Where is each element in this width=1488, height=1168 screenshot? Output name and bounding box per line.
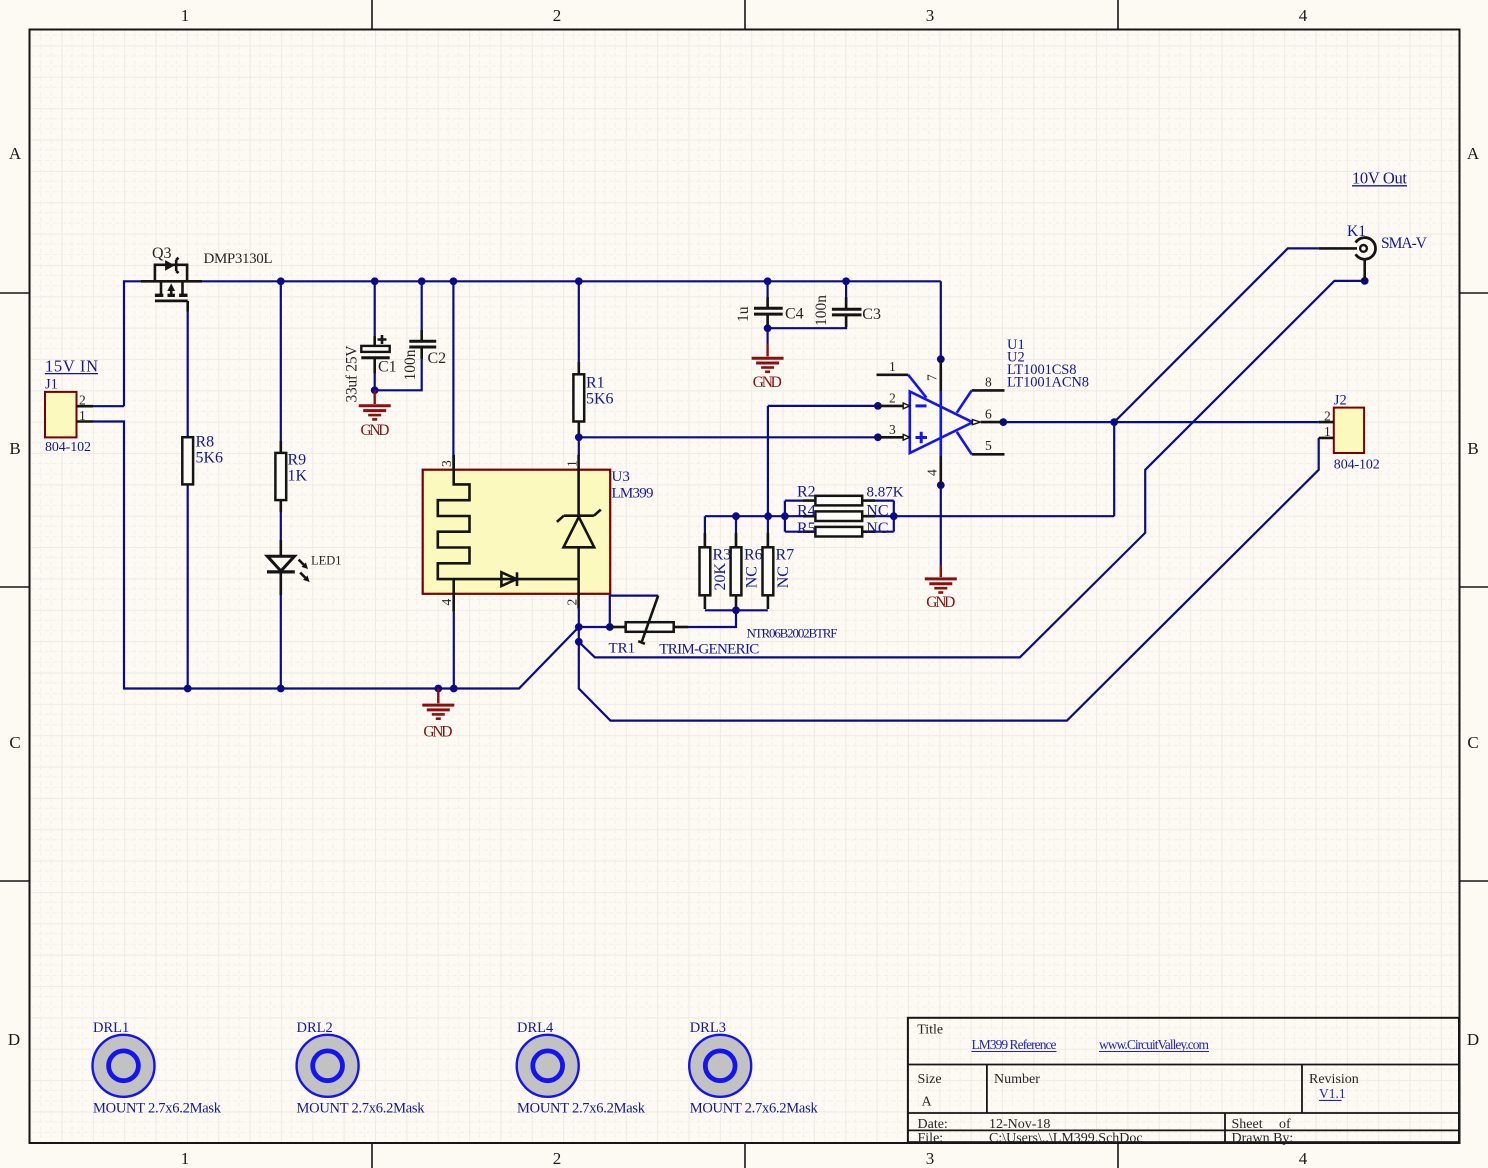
wire output to K1 center diagonal xyxy=(1114,248,1319,422)
svg-text:NTR06B2002BTRF: NTR06B2002BTRF xyxy=(747,626,838,641)
ground GND at C4 xyxy=(752,344,784,372)
capacitor C1 xyxy=(361,335,389,373)
ruler column ticks xyxy=(372,0,1118,1168)
svg-text:Number: Number xyxy=(994,1072,1040,1087)
svg-text:K1: K1 xyxy=(1347,223,1366,240)
svg-text:2: 2 xyxy=(565,599,580,606)
svg-text:Title: Title xyxy=(917,1023,943,1038)
svg-text:1K: 1K xyxy=(288,467,308,484)
svg-text:TRIM-GENERIC: TRIM-GENERIC xyxy=(659,642,759,658)
svg-text:Sheet: Sheet xyxy=(1232,1117,1263,1132)
svg-text:NC: NC xyxy=(744,566,761,588)
ground GND at opamp xyxy=(925,565,957,593)
svg-text:GND: GND xyxy=(361,422,390,439)
svg-text:8: 8 xyxy=(985,375,992,390)
svg-text:DRL3: DRL3 xyxy=(690,1020,726,1036)
potentiometer TR1 xyxy=(610,596,688,644)
ruler row ticks xyxy=(0,293,1488,881)
svg-text:1: 1 xyxy=(181,1149,190,1168)
svg-text:Date:: Date: xyxy=(918,1117,948,1132)
svg-text:2: 2 xyxy=(79,393,86,408)
svg-text:R5: R5 xyxy=(797,520,816,537)
svg-text:10V Out: 10V Out xyxy=(1352,169,1407,188)
capacitor C2 xyxy=(409,330,436,359)
svg-text:of: of xyxy=(1279,1117,1291,1132)
svg-text:D: D xyxy=(8,1030,20,1049)
wire R1 bottom to pin1 xyxy=(578,422,580,456)
svg-text:3: 3 xyxy=(889,422,896,437)
svg-text:DMP3130L: DMP3130L xyxy=(204,251,273,267)
wire R1 top xyxy=(578,281,580,374)
label U1 U2 refs xyxy=(1007,337,1089,391)
svg-text:7: 7 xyxy=(925,374,940,381)
svg-text:A: A xyxy=(9,144,22,163)
transistor Q3 DMP3130L PMOS xyxy=(141,258,202,312)
svg-text:15V IN: 15V IN xyxy=(45,357,98,376)
label www.CircuitValley.com link xyxy=(1099,1037,1209,1052)
wire pin3 opamp from R1 node xyxy=(579,436,878,438)
svg-text:J2: J2 xyxy=(1334,393,1347,409)
svg-text:NC: NC xyxy=(775,566,792,588)
svg-text:GND: GND xyxy=(926,594,955,611)
wire TR1 wiper link xyxy=(610,596,658,627)
resistor network right bracket xyxy=(893,501,895,532)
svg-text:MOUNT 2.7x6.2Mask: MOUNT 2.7x6.2Mask xyxy=(690,1100,819,1116)
svg-text:8.87K: 8.87K xyxy=(867,485,904,501)
wire J1 pin2 riser xyxy=(124,281,941,406)
svg-text:GND: GND xyxy=(753,374,782,391)
svg-text:4: 4 xyxy=(1299,6,1308,25)
svg-text:R2: R2 xyxy=(797,484,816,501)
svg-text:1: 1 xyxy=(565,460,580,467)
svg-text:A: A xyxy=(922,1095,933,1110)
LED LED1 xyxy=(267,540,310,595)
capacitor C4 xyxy=(754,297,783,326)
wire C1-C2 bottom link xyxy=(375,347,422,391)
wire C1 top xyxy=(374,281,376,345)
capacitor C3 xyxy=(832,297,862,327)
wire LM399 pin4 to rail xyxy=(453,612,455,689)
junction dots top rail xyxy=(277,277,850,285)
resistor R9 xyxy=(275,441,286,512)
svg-text:C:\Users\..\LM399.SchDoc: C:\Users\..\LM399.SchDoc xyxy=(989,1131,1143,1146)
wire LM399 pin3 xyxy=(452,281,454,469)
svg-text:MOUNT 2.7x6.2Mask: MOUNT 2.7x6.2Mask xyxy=(297,1100,426,1116)
svg-text:GND: GND xyxy=(423,724,452,741)
svg-text:R4: R4 xyxy=(797,502,816,519)
wire C4-C3 gnd link xyxy=(768,315,847,328)
svg-text:5K6: 5K6 xyxy=(586,390,614,407)
label 15V IN xyxy=(45,357,98,376)
junction dots opamp xyxy=(575,355,1118,489)
wire mid bus to feedback xyxy=(705,515,1114,517)
title block xyxy=(908,1018,1459,1142)
ground GND at bottom rail xyxy=(422,689,454,719)
connector K1 SMA xyxy=(1319,238,1376,281)
wire LM399 pin2 drop xyxy=(578,609,580,627)
resistor R8 xyxy=(182,437,193,484)
svg-text:4: 4 xyxy=(925,469,940,476)
svg-text:C4: C4 xyxy=(785,306,804,323)
svg-text:100n: 100n xyxy=(402,349,419,380)
svg-text:4: 4 xyxy=(439,599,454,606)
svg-text:33uf 25V: 33uf 25V xyxy=(344,345,361,403)
wire C2 top xyxy=(421,281,423,341)
svg-text:Revision: Revision xyxy=(1309,1072,1359,1087)
mounting hole DRL2 xyxy=(297,1035,359,1097)
IC U3 LM399 xyxy=(423,455,611,612)
wire feedback drop xyxy=(1113,422,1115,516)
svg-text:MOUNT 2.7x6.2Mask: MOUNT 2.7x6.2Mask xyxy=(93,1100,222,1116)
label 10V Out xyxy=(1352,169,1407,188)
svg-text:NC: NC xyxy=(866,502,888,519)
svg-text:1: 1 xyxy=(1324,424,1331,439)
resistor network R2 R4 R5 left bracket xyxy=(784,501,786,532)
ruler column labels top xyxy=(181,6,1308,1168)
svg-text:U3: U3 xyxy=(612,469,630,485)
wire opamp pin4 to gnd xyxy=(940,456,942,565)
wire R7 column from pin2 corner xyxy=(767,406,769,547)
connector J2 xyxy=(1319,408,1364,453)
svg-text:Drawn By:: Drawn By: xyxy=(1232,1131,1294,1146)
svg-text:804-102: 804-102 xyxy=(45,440,91,455)
wire opamp pin2 input xyxy=(768,405,878,407)
svg-text:1: 1 xyxy=(79,408,86,423)
wire R9-LED xyxy=(280,500,282,556)
svg-text:C: C xyxy=(1467,733,1478,752)
mounting hole DRL4 xyxy=(517,1035,579,1097)
wire C3 top xyxy=(845,281,847,309)
svg-text:5: 5 xyxy=(985,438,992,453)
wire C1 bottom to gnd node xyxy=(374,358,376,391)
svg-text:Size: Size xyxy=(918,1072,942,1087)
svg-text:www.CircuitValley.com: www.CircuitValley.com xyxy=(1099,1037,1209,1052)
wire R3R6R7 bottom bus xyxy=(705,609,768,611)
svg-text:DRL1: DRL1 xyxy=(93,1020,129,1036)
svg-text:R1: R1 xyxy=(586,375,605,392)
svg-text:1: 1 xyxy=(889,359,896,374)
svg-text:1: 1 xyxy=(181,6,190,25)
junction dots bottom rail xyxy=(184,685,458,693)
wire TR1 right to R6 bottom xyxy=(674,610,736,627)
resistor R7 xyxy=(763,533,774,609)
svg-text:B: B xyxy=(1467,439,1478,458)
wire TR1 left xyxy=(579,626,626,628)
svg-text:C3: C3 xyxy=(862,306,881,323)
wire R3 top xyxy=(704,516,706,547)
wire R6 top xyxy=(735,516,737,547)
resistor R6 xyxy=(731,533,742,609)
wire gnd net vertical A-B xyxy=(579,438,1319,721)
svg-text:LM399: LM399 xyxy=(612,485,654,501)
svg-text:20K: 20K xyxy=(712,563,729,591)
wire J1 pin1 riser xyxy=(93,422,579,689)
svg-text:4: 4 xyxy=(1299,1149,1308,1168)
wire R9 chain xyxy=(280,281,282,453)
svg-text:C1: C1 xyxy=(378,359,397,376)
svg-text:2: 2 xyxy=(553,1149,562,1168)
svg-text:R7: R7 xyxy=(776,547,795,564)
svg-text:R6: R6 xyxy=(744,547,763,564)
ground GND at C1 xyxy=(359,390,391,419)
svg-text:R3: R3 xyxy=(713,547,732,564)
svg-text:3: 3 xyxy=(439,460,454,467)
label V1.1 link xyxy=(1319,1086,1346,1101)
wire opamp output to J2 pin2 xyxy=(1003,421,1318,423)
svg-text:2: 2 xyxy=(553,6,562,25)
svg-text:LM399 Reference: LM399 Reference xyxy=(972,1037,1057,1052)
svg-text:MOUNT 2.7x6.2Mask: MOUNT 2.7x6.2Mask xyxy=(517,1100,646,1116)
op-amp U1 LT1001 xyxy=(877,359,1005,485)
svg-text:R8: R8 xyxy=(196,434,215,451)
resistor R1 xyxy=(573,362,584,434)
junction dots gnd net xyxy=(371,277,1369,646)
svg-text:2: 2 xyxy=(1324,408,1331,423)
mounting hole DRL1 xyxy=(93,1035,155,1097)
svg-text:3: 3 xyxy=(926,6,935,25)
svg-text:B: B xyxy=(9,439,20,458)
svg-text:C2: C2 xyxy=(428,350,447,367)
resistor R4 xyxy=(803,511,875,521)
wire C4 drop xyxy=(766,281,768,308)
svg-text:D: D xyxy=(1467,1030,1479,1049)
svg-text:File:: File: xyxy=(918,1131,944,1146)
resistor R5 xyxy=(785,527,894,537)
connector J1 xyxy=(45,392,93,438)
svg-text:TR1: TR1 xyxy=(609,641,636,657)
svg-text:R9: R9 xyxy=(288,452,307,469)
mounting hole DRL3 xyxy=(689,1035,751,1097)
svg-text:LT1001ACN8: LT1001ACN8 xyxy=(1007,375,1089,391)
svg-text:DRL4: DRL4 xyxy=(517,1020,554,1036)
wire rail corner to opamp pin7 xyxy=(940,281,942,391)
svg-text:Q3: Q3 xyxy=(152,245,172,262)
svg-text:100n: 100n xyxy=(813,295,830,326)
wire top 15V rail xyxy=(93,405,124,407)
svg-text:C: C xyxy=(9,733,20,752)
wire gate to R8 xyxy=(187,302,189,437)
svg-text:V1.1: V1.1 xyxy=(1319,1086,1346,1101)
svg-text:DRL2: DRL2 xyxy=(297,1020,333,1036)
svg-text:6: 6 xyxy=(985,407,992,422)
svg-text:NC: NC xyxy=(866,520,888,537)
svg-text:804-102: 804-102 xyxy=(1334,458,1380,473)
wire K1 shield to sense net xyxy=(579,281,1365,658)
wire LED to rail xyxy=(280,572,282,689)
junction dots mid bus xyxy=(732,512,898,614)
svg-text:J1: J1 xyxy=(45,376,58,392)
svg-text:5K6: 5K6 xyxy=(196,449,224,466)
svg-text:LED1: LED1 xyxy=(311,554,342,568)
wire R8 bottom to rail xyxy=(187,484,189,688)
resistor R2 xyxy=(785,496,894,506)
resistor R3 xyxy=(700,533,711,609)
svg-text:12-Nov-18: 12-Nov-18 xyxy=(989,1117,1050,1132)
svg-text:3: 3 xyxy=(926,1149,935,1168)
svg-text:A: A xyxy=(1467,144,1480,163)
svg-text:SMA-V: SMA-V xyxy=(1381,235,1428,252)
wire C4 bottom xyxy=(766,316,768,344)
ruler row labels xyxy=(8,144,1480,1049)
svg-text:1u: 1u xyxy=(735,306,752,322)
label LM399 Reference link xyxy=(972,1037,1057,1052)
svg-text:2: 2 xyxy=(889,391,896,406)
